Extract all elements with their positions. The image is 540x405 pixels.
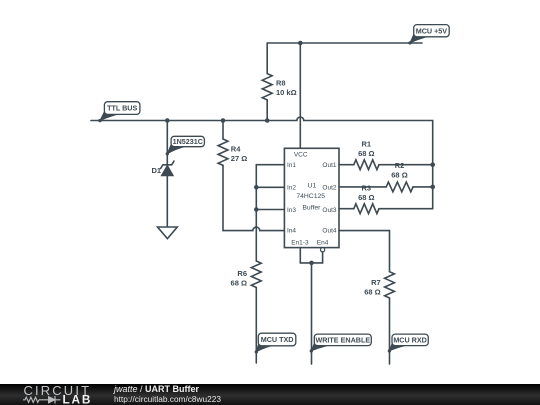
net flag MCU +5V — [408, 25, 449, 45]
node: junction TXD bus / In2 — [254, 185, 259, 190]
svg-text:Out1: Out1 — [322, 162, 336, 169]
flag 1N5231C (D1 value) — [166, 136, 205, 155]
resistor R8 — [262, 43, 296, 121]
wire: In1 pin — [256, 164, 284, 166]
wire: D1 anode to ground — [166, 176, 168, 227]
svg-text:R2: R2 — [395, 161, 405, 170]
svg-text:R6: R6 — [237, 269, 247, 278]
wire: Out4 to R7 — [339, 231, 390, 272]
resistor R1 — [339, 140, 433, 170]
svg-text:In4: In4 — [287, 228, 296, 235]
svg-text:R1: R1 — [362, 140, 372, 149]
resistor R7 — [364, 272, 394, 364]
svg-text:U1: U1 — [308, 182, 317, 189]
svg-text:TTL BUS: TTL BUS — [107, 104, 137, 113]
resistor R4 — [218, 121, 247, 231]
wire: MCU TXD bus vertical — [255, 165, 257, 261]
resistor R2 — [339, 161, 433, 192]
wire: R4 to In4 with hop over TXD bus — [223, 227, 284, 230]
net flag MCU RXD — [388, 334, 429, 352]
svg-text:Out4: Out4 — [322, 228, 336, 235]
wire: WRITE ENABLE vertical — [311, 263, 313, 364]
logo resistor squiggle — [23, 397, 48, 402]
node: junction TTL BUS / D1 — [165, 118, 170, 123]
node: junction TTL BUS / R8 — [265, 118, 270, 123]
net flag WRITE ENABLE — [310, 334, 372, 352]
svg-text:R3: R3 — [362, 184, 372, 193]
svg-text:In3: In3 — [287, 207, 296, 214]
svg-text:VCC: VCC — [294, 151, 308, 158]
wire: En1-3 pin down — [299, 248, 301, 263]
svg-text:LAB: LAB — [63, 393, 93, 405]
logo diode — [49, 397, 56, 403]
wire: In3 pin — [256, 209, 284, 211]
svg-text:Out2: Out2 — [322, 185, 336, 192]
svg-text:Out3: Out3 — [322, 207, 336, 214]
node: junction TTL BUS / R4 — [221, 118, 226, 123]
svg-text:R7: R7 — [371, 278, 381, 287]
wire: En4 pin down — [322, 252, 324, 263]
svg-text:R4: R4 — [231, 145, 241, 154]
diode D1 wire top — [166, 121, 168, 165]
op-amp U1 74HC125 buffer IC box — [284, 148, 339, 247]
resistor R6 — [231, 261, 262, 363]
wire: +5V top rail — [267, 42, 422, 44]
svg-text:MCU RXD: MCU RXD — [393, 336, 427, 345]
wire: En1-3 to En4 horizontal — [300, 262, 322, 264]
svg-text:68 Ω: 68 Ω — [231, 279, 247, 288]
svg-text:WRITE ENABLE: WRITE ENABLE — [315, 336, 370, 345]
svg-text:In1: In1 — [287, 162, 296, 169]
svg-text:68 Ω: 68 Ω — [358, 149, 374, 158]
ground — [158, 227, 178, 239]
svg-text:D1: D1 — [152, 166, 162, 175]
svg-text:1N5231C: 1N5231C — [173, 137, 203, 146]
node: junction R1 / right vertical — [430, 162, 435, 167]
net flag TTL BUS — [98, 102, 140, 123]
svg-text:68 Ω: 68 Ω — [364, 288, 380, 297]
svg-text:MCU TXD: MCU TXD — [261, 335, 294, 344]
svg-text:Buffer: Buffer — [302, 205, 321, 212]
resistor R3 — [339, 184, 433, 214]
net flag MCU TXD — [255, 333, 296, 353]
wire: VCC pin vertical (under hop) — [299, 43, 301, 148]
node: junction R2 / right vertical — [430, 185, 435, 190]
wire: TTL BUS horizontal with hop over VCC wire, down right side — [91, 117, 433, 209]
svg-text:En1-3: En1-3 — [291, 239, 309, 246]
En4 inversion bubble — [321, 248, 325, 252]
svg-text:27 Ω: 27 Ω — [231, 154, 247, 163]
svg-text:68 Ω: 68 Ω — [358, 193, 374, 202]
node: junction +5V rail / VCC pin wire — [298, 41, 303, 46]
svg-text:74HC125: 74HC125 — [296, 193, 325, 200]
wire: In2 pin — [256, 186, 284, 188]
svg-text:68 Ω: 68 Ω — [391, 171, 407, 180]
svg-text:MCU +5V: MCU +5V — [416, 26, 448, 35]
svg-text:In2: In2 — [287, 185, 296, 192]
node: junction enable wires — [309, 261, 314, 266]
node: junction TXD bus / In3 — [254, 207, 259, 212]
diode D1 (zener) — [152, 161, 175, 176]
svg-text:R8: R8 — [276, 79, 286, 88]
svg-text:En4: En4 — [317, 239, 329, 246]
svg-text:10 kΩ: 10 kΩ — [276, 88, 297, 97]
